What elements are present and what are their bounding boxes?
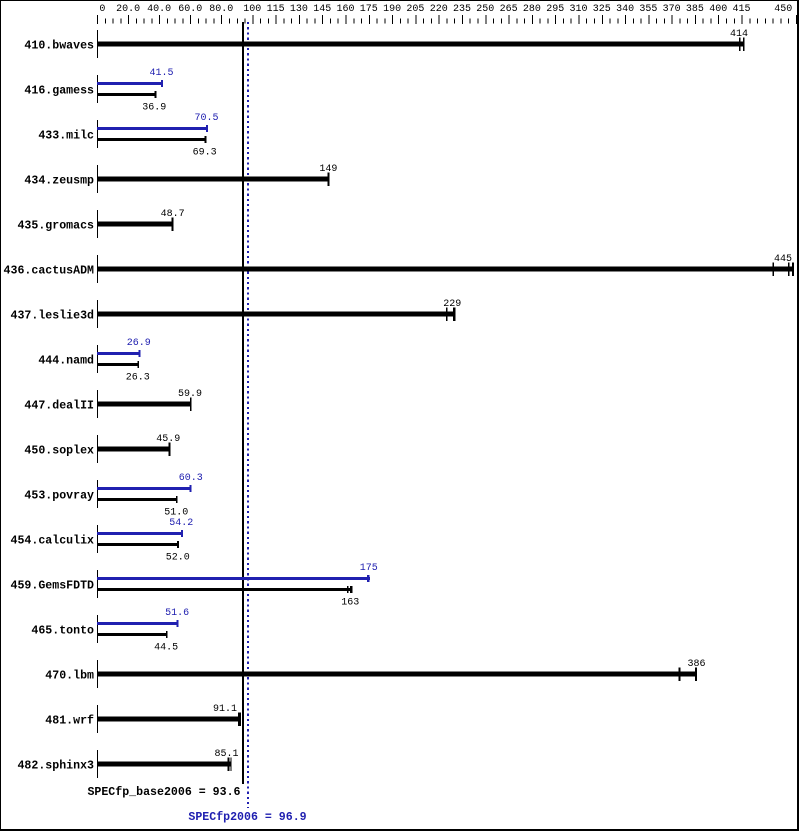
svg-text:229: 229 <box>443 299 461 310</box>
svg-text:400: 400 <box>709 4 727 15</box>
svg-text:250: 250 <box>476 4 494 15</box>
svg-text:175: 175 <box>360 563 378 574</box>
svg-text:386: 386 <box>687 659 705 670</box>
svg-text:85.1: 85.1 <box>214 749 238 760</box>
row 450.soplex <box>24 434 180 463</box>
svg-text:0: 0 <box>99 4 105 15</box>
row 436.cactusADM <box>4 254 794 283</box>
vertical dotted reference line: SPECfp2006 = 96.9 <box>247 22 249 808</box>
row 444.namd <box>38 338 150 384</box>
svg-text:190: 190 <box>383 4 401 15</box>
svg-text:59.9: 59.9 <box>178 389 202 400</box>
svg-text:70.5: 70.5 <box>194 113 218 124</box>
svg-text:436.cactusADM: 436.cactusADM <box>4 265 94 278</box>
svg-text:459.GemsFDTD: 459.GemsFDTD <box>11 580 95 593</box>
svg-text:454.calculix: 454.calculix <box>11 535 95 548</box>
row 459.GemsFDTD <box>11 563 378 609</box>
row 416.gamess <box>24 68 173 114</box>
svg-text:416.gamess: 416.gamess <box>24 85 94 98</box>
svg-text:163: 163 <box>341 598 359 609</box>
svg-text:51.0: 51.0 <box>164 508 188 519</box>
svg-text:470.lbm: 470.lbm <box>45 670 94 683</box>
svg-text:220: 220 <box>430 4 448 15</box>
svg-text:54.2: 54.2 <box>169 518 193 529</box>
row 433.milc <box>38 113 218 159</box>
svg-text:205: 205 <box>406 4 424 15</box>
svg-text:235: 235 <box>453 4 471 15</box>
row 437.leslie3d <box>11 299 462 328</box>
row 434.zeusmp <box>24 164 337 193</box>
svg-text:60.3: 60.3 <box>179 473 203 484</box>
svg-text:115: 115 <box>267 4 285 15</box>
svg-text:447.dealII: 447.dealII <box>24 400 94 413</box>
row 435.gromacs <box>17 209 184 238</box>
row 410.bwaves <box>24 29 748 58</box>
svg-text:130: 130 <box>290 4 308 15</box>
svg-text:45.9: 45.9 <box>156 434 180 445</box>
svg-text:91.1: 91.1 <box>213 704 237 715</box>
svg-text:265: 265 <box>500 4 518 15</box>
svg-text:44.5: 44.5 <box>154 643 178 654</box>
svg-text:SPECfp_base2006 = 93.6: SPECfp_base2006 = 93.6 <box>87 786 240 799</box>
svg-text:450: 450 <box>774 4 792 15</box>
row 453.povray <box>24 473 202 519</box>
svg-text:410.bwaves: 410.bwaves <box>24 40 94 53</box>
svg-text:310: 310 <box>569 4 587 15</box>
svg-text:414: 414 <box>730 29 748 40</box>
svg-text:160: 160 <box>336 4 354 15</box>
svg-text:80.0: 80.0 <box>209 4 233 15</box>
svg-text:481.wrf: 481.wrf <box>45 715 94 728</box>
svg-text:450.soplex: 450.soplex <box>24 445 94 458</box>
svg-text:385: 385 <box>686 4 704 15</box>
x-axis scale labels <box>99 4 792 15</box>
svg-text:100: 100 <box>243 4 261 15</box>
svg-text:465.tonto: 465.tonto <box>31 625 94 638</box>
svg-text:36.9: 36.9 <box>142 103 166 114</box>
svg-text:26.9: 26.9 <box>127 338 151 349</box>
svg-text:415: 415 <box>732 4 750 15</box>
svg-text:437.leslie3d: 437.leslie3d <box>11 310 95 323</box>
svg-text:434.zeusmp: 434.zeusmp <box>24 175 94 188</box>
svg-text:433.milc: 433.milc <box>38 130 94 143</box>
svg-text:295: 295 <box>546 4 564 15</box>
svg-text:145: 145 <box>313 4 331 15</box>
svg-text:41.5: 41.5 <box>149 68 173 79</box>
svg-text:444.namd: 444.namd <box>38 355 94 368</box>
row 482.sphinx3 <box>17 749 238 778</box>
x-axis ruler tick marks <box>97 15 797 24</box>
svg-text:435.gromacs: 435.gromacs <box>17 220 94 233</box>
svg-text:445: 445 <box>774 254 792 265</box>
svg-text:60.0: 60.0 <box>178 4 202 15</box>
svg-text:69.3: 69.3 <box>193 148 217 159</box>
row 454.calculix <box>11 518 194 564</box>
svg-text:453.povray: 453.povray <box>24 490 94 503</box>
svg-text:51.6: 51.6 <box>165 608 189 619</box>
svg-text:52.0: 52.0 <box>166 553 190 564</box>
vertical reference line: SPECfp_base2006 = 93.6 <box>242 22 244 784</box>
svg-text:40.0: 40.0 <box>147 4 171 15</box>
row 481.wrf <box>45 704 241 733</box>
svg-text:482.sphinx3: 482.sphinx3 <box>17 760 94 773</box>
svg-text:48.7: 48.7 <box>161 209 185 220</box>
svg-text:20.0: 20.0 <box>116 4 140 15</box>
svg-text:26.3: 26.3 <box>126 373 150 384</box>
svg-text:325: 325 <box>593 4 611 15</box>
svg-text:370: 370 <box>663 4 681 15</box>
svg-text:280: 280 <box>523 4 541 15</box>
svg-text:149: 149 <box>319 164 337 175</box>
svg-text:SPECfp2006 = 96.9: SPECfp2006 = 96.9 <box>188 811 306 824</box>
svg-text:355: 355 <box>639 4 657 15</box>
row 465.tonto <box>31 608 189 654</box>
svg-text:175: 175 <box>360 4 378 15</box>
row 447.dealII <box>24 389 202 418</box>
row 470.lbm <box>45 659 705 688</box>
svg-text:340: 340 <box>616 4 634 15</box>
